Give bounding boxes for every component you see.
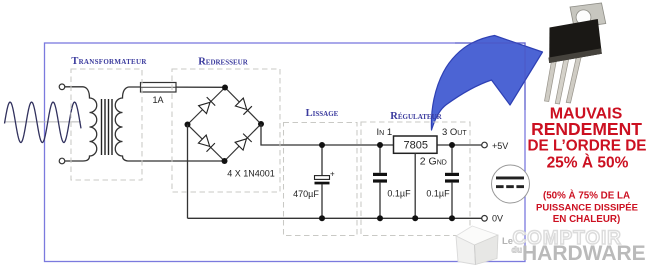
capacitor C2 plates [373,173,387,176]
blue frame overlay over arrow [455,43,525,110]
sine axis [4,121,81,123]
svg-text:PUISSANCE DISSIPÉE: PUISSANCE DISSIPÉE [536,203,638,214]
metal tab [570,3,606,28]
junction dot C2 bottom [377,215,383,221]
wire bridge plus to regulator [261,124,394,145]
svg-text:DE L’ORDRE DE: DE L’ORDRE DE [528,138,647,155]
regulator ground lead [414,153,416,218]
junction dot C3 top [449,142,455,148]
node right [258,121,264,127]
watermark text [502,228,646,265]
svg-text:25% À 50%: 25% À 50% [547,155,629,172]
regulator U1 7805 [394,136,438,153]
transformer core [102,99,113,155]
diode D4 bottom-right [235,134,252,151]
svg-text:2 Gnd: 2 Gnd [420,156,447,168]
svg-text:Régulateur: Régulateur [390,111,442,122]
output terminal 0V [482,216,488,222]
dashed box transformateur [71,69,142,180]
DC symbol circle [492,165,530,203]
diode D1 left-top [199,97,216,114]
bridge edges [188,88,262,162]
svg-text:Transformateur: Transformateur [71,56,147,67]
svg-text:1A: 1A [152,95,163,105]
capacitor C1 plate bottom [315,182,330,185]
capacitor C3 plates [445,173,459,176]
watermark cube [456,226,498,265]
DC symbol solid bar [496,177,524,180]
dashed box regulateur [361,122,470,236]
svg-text:HARDWARE: HARDWARE [522,242,646,265]
capacitor C1 470uF leads [321,145,323,218]
node bottom [222,158,228,164]
node top [222,85,228,91]
tab hole [576,10,591,25]
input terminal top [59,84,65,90]
svg-text:+5V: +5V [492,141,508,151]
leg 1 [545,60,557,102]
svg-text:470µF: 470µF [293,189,319,199]
svg-text:Redresseur: Redresseur [198,57,249,68]
node left [185,122,191,128]
wire fuse to bridge top [141,86,226,88]
blue border box [45,43,526,262]
svg-text:+: + [330,170,335,179]
diode D2 top-right [235,98,252,115]
svg-text:0.1µF: 0.1µF [387,189,411,199]
capacitor C3 0.1uF leads [451,145,453,218]
AC sine wave [5,102,82,142]
junction dot gnd [412,215,418,221]
blue arrow [431,36,542,131]
junction dot C3 bottom [449,215,455,221]
leg 2 [555,58,569,104]
diode D3 left-bottom [198,135,215,152]
leg 3 [566,56,581,104]
dashed box lissage [284,123,358,236]
svg-text:du: du [512,245,522,255]
DC symbol dashed bar [496,185,504,188]
svg-text:0V: 0V [492,214,503,224]
capacitor C2 0.1uF leads [379,145,381,218]
svg-text:EN CHALEUR): EN CHALEUR) [553,214,621,225]
svg-text:RENDEMENT: RENDEMENT [531,119,642,139]
svg-text:Lissage: Lissage [306,108,339,119]
transistor TO-220 photo [545,3,606,104]
capacitor C1 plate top [315,176,330,180]
svg-text:7805: 7805 [404,140,428,152]
body [549,19,602,63]
transformer secondary winding [115,87,224,161]
svg-text:0.1µF: 0.1µF [426,189,450,199]
red caption MAUVAIS RENDEMENT [528,106,647,226]
junction dot C1 bottom [319,215,325,221]
dashed box redresseur [172,69,280,192]
svg-text:3 Out: 3 Out [442,127,467,138]
wire bridge minus down [187,125,189,219]
svg-text:(50% À 75% DE LA: (50% À 75% DE LA [543,190,630,202]
junction dot C1 top [319,142,325,148]
wire 0V rail [188,217,482,219]
transformer primary winding [65,87,97,161]
svg-text:4 X 1N4001: 4 X 1N4001 [227,169,275,179]
fuse F1 [141,83,177,93]
junction dot C2 top [377,142,383,148]
svg-text:In 1: In 1 [377,127,393,138]
body bottom strip [548,48,601,63]
wire regulator out to +5V [437,144,482,146]
output terminal +5V [482,142,488,148]
input terminal bottom [59,158,65,164]
